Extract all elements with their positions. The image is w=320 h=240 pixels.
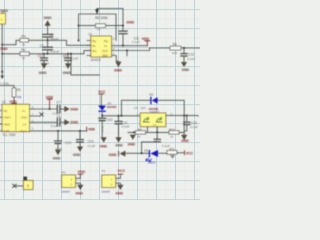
svg-text:P2: P2 bbox=[62, 170, 66, 174]
svg-text:V+: V+ bbox=[104, 44, 108, 48]
U1 right pin numbers bbox=[113, 37, 115, 56]
junction LED row bbox=[141, 152, 143, 154]
svg-text:Rg: Rg bbox=[104, 39, 108, 43]
capacitor C12 bbox=[181, 48, 195, 62]
junction Rg left on rail bbox=[78, 40, 80, 42]
junction right row B bbox=[186, 115, 188, 117]
svg-text:GND: GND bbox=[0, 47, 8, 51]
svg-text:P1: P1 bbox=[102, 169, 106, 173]
op-amp U1 AD620 bbox=[88, 32, 111, 62]
svg-text:1k: 1k bbox=[22, 56, 26, 60]
wire R4 to U1 IN- rail bbox=[29, 40, 92, 45]
resistor R2 bbox=[79, 24, 123, 32]
wire U2 Vout row bbox=[34, 130, 87, 132]
svg-text:OUT: OUT bbox=[102, 49, 108, 53]
wire LED row bbox=[126, 152, 149, 154]
ground C12 bbox=[181, 62, 190, 72]
svg-text:D6: D6 bbox=[144, 149, 148, 153]
power port VCC (above D1) bbox=[98, 90, 106, 106]
svg-text:100: 100 bbox=[172, 51, 177, 55]
svg-text:GND: GND bbox=[39, 71, 47, 75]
U2 right pin stubs + numbers bbox=[29, 106, 40, 131]
junction R2 right bbox=[122, 25, 124, 27]
resistor R3 (vertical above U2) bbox=[0, 86, 22, 104]
svg-text:U2: U2 bbox=[2, 100, 6, 104]
junction node C bbox=[1, 71, 3, 73]
svg-text:C10: C10 bbox=[107, 118, 113, 122]
svg-text:CAP+: CAP+ bbox=[3, 116, 11, 120]
capacitor C7 bbox=[53, 100, 65, 115]
wire U2 LV row bbox=[34, 121, 57, 123]
junction node A bbox=[1, 44, 3, 46]
capacitor C3 bbox=[38, 54, 50, 66]
wire P1 pin2 to gnd bbox=[116, 183, 121, 184]
capacitor C2 bbox=[40, 40, 60, 54]
arrow end of left bus bbox=[0, 76, 4, 80]
grid (decorative) bbox=[0, 0, 200, 200]
ground C11 bbox=[115, 137, 123, 147]
junction cap drop bbox=[156, 132, 158, 134]
svg-text:ICL-7660: ICL-7660 bbox=[3, 133, 16, 137]
capacitor C13 (polarized) bbox=[55, 131, 71, 151]
svg-text:OSC: OSC bbox=[21, 116, 27, 120]
svg-text:R11: R11 bbox=[169, 147, 175, 151]
svg-text:R10: R10 bbox=[169, 127, 175, 131]
junction C14 top bbox=[79, 130, 81, 132]
ground C10 bbox=[100, 137, 108, 148]
svg-text:C6: C6 bbox=[63, 54, 67, 58]
svg-text:GND: GND bbox=[126, 20, 134, 24]
svg-text:R5: R5 bbox=[173, 43, 177, 47]
wire R1 to U1 IN+ rail bbox=[29, 51, 91, 54]
svg-text:AD620: AD620 bbox=[91, 58, 101, 62]
capacitor C6 bbox=[63, 54, 79, 63]
svg-text:C13: C13 bbox=[65, 141, 71, 145]
svg-text:1: 1 bbox=[27, 184, 29, 188]
svg-text:0.1uF: 0.1uF bbox=[88, 144, 96, 148]
power port VDD (right of U1) bbox=[142, 37, 150, 46]
junction C12 top bbox=[183, 47, 185, 49]
svg-text:C7: C7 bbox=[56, 100, 60, 104]
capacitor C1 bbox=[43, 33, 59, 41]
svg-text:DIODE: DIODE bbox=[107, 105, 117, 109]
junction C2 bottom bbox=[47, 53, 49, 55]
no-connect X on U2 pin 7 bbox=[40, 113, 43, 116]
U4 pin numbers bbox=[137, 112, 173, 127]
wire U2 V+ row bbox=[34, 108, 57, 110]
label C11a + value bbox=[132, 36, 140, 43]
svg-text:LV: LV bbox=[23, 122, 26, 126]
svg-text:GND: GND bbox=[109, 153, 117, 157]
svg-text:3 4: 3 4 bbox=[153, 123, 157, 127]
LED D6 (blue, pointing left) bbox=[146, 150, 167, 162]
svg-text:Vout: Vout bbox=[20, 129, 26, 133]
svg-text:0.1uF: 0.1uF bbox=[71, 57, 79, 61]
svg-text:GND: GND bbox=[75, 191, 83, 195]
svg-text:1 100k: 1 100k bbox=[0, 82, 10, 86]
svg-text:R9: R9 bbox=[138, 127, 142, 131]
junction branch bbox=[70, 53, 72, 55]
ground R9 row bbox=[128, 135, 136, 147]
wire R11 to VCC bbox=[177, 152, 184, 154]
svg-text:R1: R1 bbox=[21, 48, 25, 52]
resistor R11 bbox=[167, 147, 177, 159]
svg-text:124: 124 bbox=[140, 106, 145, 110]
junction node B bbox=[1, 53, 3, 55]
ground (left arrow, LED row) bbox=[109, 151, 126, 157]
svg-text:0.1nF: 0.1nF bbox=[122, 125, 130, 129]
label D1 DIODE bbox=[107, 102, 117, 109]
ground P2 bbox=[75, 185, 83, 196]
ground right bus bbox=[181, 135, 189, 143]
junction OUT stub bbox=[126, 50, 128, 52]
junction C3 top bbox=[43, 53, 45, 55]
svg-text:GND: GND bbox=[115, 144, 123, 148]
svg-text:V+: V+ bbox=[22, 109, 26, 113]
junction D2 riser bbox=[121, 115, 123, 117]
wire U1 V+ to VDD bbox=[112, 45, 148, 47]
junction C11 top bbox=[118, 115, 120, 117]
connector J1 (top-left yellow box) bbox=[0, 13, 6, 24]
wire P2 pin1 to VDD bbox=[76, 174, 81, 178]
junction V+ / C11a bbox=[122, 45, 124, 47]
svg-text:power: power bbox=[62, 189, 70, 193]
switch S1 (bottom-left yellow box) bbox=[13, 177, 33, 190]
svg-text:VCC: VCC bbox=[118, 169, 126, 173]
U2 left pin stubs bbox=[0, 111, 2, 131]
ground C6 bbox=[63, 63, 72, 74]
stub below OUT bbox=[126, 51, 128, 56]
junction C6 top bbox=[67, 53, 69, 55]
U1 left pin stubs bbox=[87, 41, 91, 56]
label D6 DIODE 1N4007 bbox=[149, 92, 160, 114]
svg-text:C8: C8 bbox=[56, 115, 60, 119]
power port GND (top-left corner) bbox=[0, 9, 8, 13]
svg-text:VEE: VEE bbox=[88, 127, 96, 131]
ground C3 bbox=[39, 63, 48, 74]
resistor R4 bbox=[20, 34, 29, 46]
svg-text:GND: GND bbox=[116, 191, 124, 195]
resistor R10 bbox=[169, 127, 179, 138]
svg-text:0.1uF: 0.1uF bbox=[190, 125, 198, 129]
power port VDD (above U2 pin8) bbox=[46, 95, 54, 109]
svg-text:1k: 1k bbox=[22, 42, 26, 46]
svg-text:R2 100k: R2 100k bbox=[95, 16, 108, 20]
svg-text:C3: C3 bbox=[38, 54, 42, 58]
connector P1 (power, right) bbox=[102, 169, 116, 193]
svg-text:100nF: 100nF bbox=[50, 37, 59, 41]
wire top loop lower bbox=[79, 14, 116, 41]
riser x123 with capacitor C11a bbox=[119, 9, 127, 46]
junction Rg left riser bbox=[78, 25, 80, 27]
capacitor C10 bbox=[99, 118, 113, 137]
ground C13 bbox=[53, 150, 61, 161]
wire R5 to edge bbox=[181, 47, 200, 49]
svg-text:GND: GND bbox=[181, 139, 189, 143]
resistor R1 bbox=[20, 48, 29, 60]
svg-text:GND: GND bbox=[53, 156, 61, 160]
resistor R9 bbox=[136, 127, 146, 138]
svg-text:REF: REF bbox=[102, 54, 108, 58]
wire top loop upper bbox=[97, 8, 123, 10]
ground C7 (arrow right) bbox=[64, 106, 78, 112]
capacitor C8 bbox=[51, 115, 65, 128]
power port VEE bbox=[87, 127, 96, 131]
svg-text:GND: GND bbox=[3, 122, 9, 126]
wire U1 REF down bbox=[112, 56, 119, 62]
svg-text:VDD: VDD bbox=[142, 37, 150, 41]
svg-text:GND: GND bbox=[114, 68, 122, 72]
U4 bottom pin stubs bbox=[148, 127, 158, 133]
svg-text:GND: GND bbox=[63, 71, 71, 75]
wire branch down-right bbox=[71, 54, 99, 75]
svg-text:GND: GND bbox=[44, 16, 52, 20]
svg-text:Rg: Rg bbox=[92, 39, 96, 43]
svg-text:U1: U1 bbox=[88, 32, 92, 36]
svg-text:GND: GND bbox=[73, 153, 81, 157]
wire U1 OUT to R5 bbox=[112, 48, 170, 51]
power port VDD (above U2) bbox=[9, 100, 17, 104]
capacitor C16 (below R9 row) bbox=[142, 134, 170, 153]
junction C1 bottom bbox=[47, 39, 49, 41]
connector P2 (power, left) bbox=[62, 170, 76, 193]
ground C14 bbox=[73, 147, 83, 158]
svg-text:GND: GND bbox=[0, 9, 8, 13]
IC U4 (audio amp) bbox=[134, 106, 166, 127]
svg-text:VDD: VDD bbox=[78, 170, 86, 174]
svg-text:GND: GND bbox=[182, 68, 190, 72]
svg-text:74: 74 bbox=[97, 28, 101, 32]
svg-text:0.1uF: 0.1uF bbox=[132, 40, 140, 44]
svg-text:0.01uF: 0.01uF bbox=[50, 50, 60, 54]
wire J1 down left bus bbox=[1, 24, 3, 78]
svg-text:D6: D6 bbox=[149, 92, 153, 96]
svg-text:GND: GND bbox=[128, 142, 136, 146]
svg-text:10uF: 10uF bbox=[101, 126, 105, 133]
svg-text:power: power bbox=[102, 189, 110, 193]
power port VCC bbox=[184, 151, 193, 156]
svg-text:C2: C2 bbox=[40, 44, 44, 48]
ground C8 (arrow right) bbox=[64, 119, 78, 125]
svg-text:R3: R3 bbox=[17, 88, 21, 92]
wire right bus down bbox=[183, 116, 185, 135]
svg-text:IN-: IN- bbox=[92, 44, 96, 48]
ground P1 bbox=[116, 185, 124, 196]
svg-text:IN+: IN+ bbox=[92, 49, 97, 53]
power port GND above C1 bbox=[44, 16, 52, 34]
wire P2 pin2 to gnd bbox=[76, 183, 81, 184]
svg-text:0.1uF: 0.1uF bbox=[187, 57, 195, 61]
power port VCC (P1) bbox=[118, 169, 126, 174]
capacitor C11 bbox=[115, 116, 130, 137]
svg-text:NC: NC bbox=[3, 109, 7, 113]
wire node A to R4 bbox=[2, 40, 20, 44]
svg-text:VCC: VCC bbox=[186, 152, 194, 156]
capacitor C14 bbox=[77, 131, 96, 148]
svg-text:0.1uF: 0.1uF bbox=[51, 124, 59, 128]
wire P1 pin1 to VCC bbox=[116, 174, 121, 178]
power port VDD (P2) bbox=[78, 170, 86, 174]
junction C13 top bbox=[57, 130, 59, 132]
wire D1 node to U4 pin1 bbox=[102, 115, 140, 117]
svg-text:GND: GND bbox=[70, 121, 78, 125]
svg-text:R4: R4 bbox=[21, 34, 25, 38]
svg-text:GND: GND bbox=[70, 107, 78, 111]
svg-text:10k: 10k bbox=[17, 95, 22, 99]
junction D1 bus bbox=[101, 115, 103, 117]
IC U2 ICL7660 bbox=[2, 100, 30, 137]
junction VDD / pin8 wire bbox=[49, 108, 51, 110]
resistor R5 bbox=[170, 43, 181, 56]
svg-text:LED0: LED0 bbox=[148, 161, 156, 165]
arrow tap at x97 bbox=[96, 9, 99, 14]
ground REF bbox=[114, 62, 122, 73]
wire D2 row bbox=[122, 100, 185, 116]
junction GND drop bbox=[133, 132, 135, 134]
wire R9 row bbox=[128, 131, 184, 133]
svg-text:GND: GND bbox=[100, 145, 108, 149]
capacitor C15 bbox=[184, 116, 198, 131]
diode D1 (vertical, blue) bbox=[98, 106, 106, 118]
wire U4 right row bbox=[166, 115, 198, 117]
diode D2 (blue, pointing left) bbox=[151, 97, 158, 103]
svg-text:U4: U4 bbox=[134, 106, 138, 110]
junction right row A bbox=[183, 115, 185, 117]
wire node B to R1 bbox=[2, 53, 20, 55]
